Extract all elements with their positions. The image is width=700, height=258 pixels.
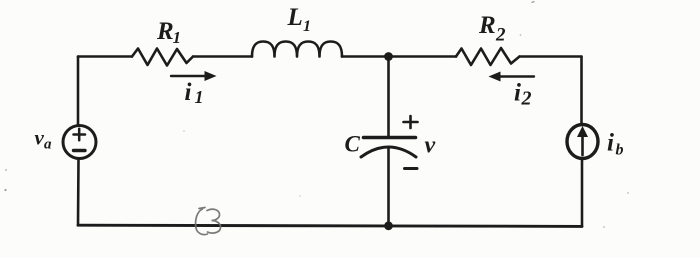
svg-text:i: i — [514, 80, 521, 107]
svg-text:1: 1 — [195, 87, 204, 107]
svg-text:a: a — [44, 137, 52, 153]
svg-text:1: 1 — [303, 18, 311, 35]
svg-text:R: R — [478, 12, 496, 39]
svg-text:1: 1 — [173, 28, 182, 47]
svg-text:2: 2 — [495, 25, 506, 46]
svg-text:v: v — [35, 126, 45, 150]
svg-text:C: C — [345, 132, 361, 157]
svg-text:L: L — [287, 4, 303, 31]
svg-text:i: i — [607, 130, 614, 157]
svg-text:v: v — [425, 133, 436, 159]
svg-text:i: i — [185, 79, 192, 106]
svg-text:b: b — [616, 142, 624, 159]
svg-text:R: R — [156, 18, 174, 45]
svg-text:2: 2 — [521, 88, 532, 110]
